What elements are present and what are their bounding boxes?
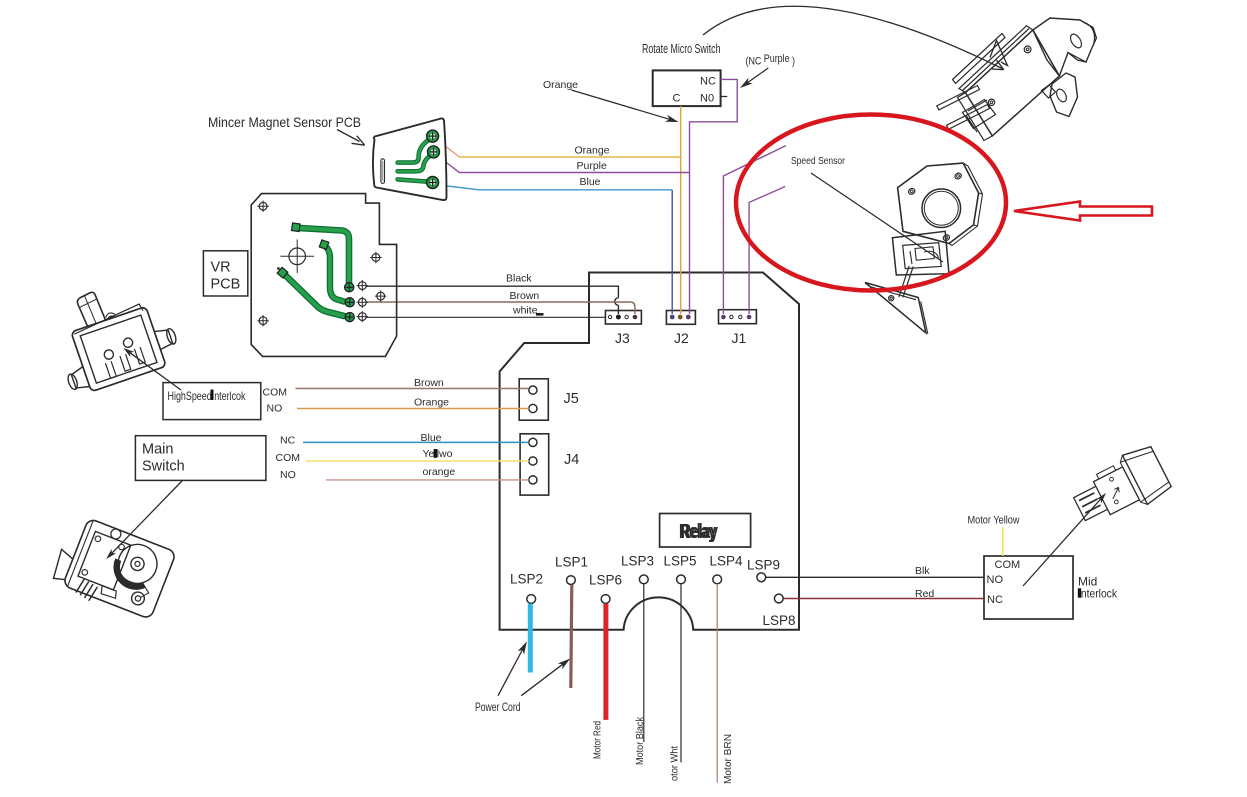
svg-text:COM: COM — [276, 452, 301, 464]
wire purple (J1 pin4 to speed sensor) — [749, 187, 785, 315]
wire motor white from LSP5 — [680, 584, 682, 763]
wire hop (black over brown) — [615, 298, 619, 305]
svg-text:J1: J1 — [732, 330, 747, 346]
svg-text:Orange: Orange — [543, 79, 578, 91]
svg-text:LSP4: LSP4 — [710, 554, 744, 569]
svg-text:NC: NC — [987, 594, 1003, 606]
mincer PCB pad 2 — [428, 146, 440, 158]
svg-text:Switch: Switch — [142, 459, 185, 475]
VR PCB pad 1 — [345, 283, 354, 292]
label Mid Interlock — [1078, 575, 1118, 601]
main switch box — [135, 436, 266, 481]
VR PCB screw terminal 3 — [357, 311, 368, 322]
line speed sensor label to component — [811, 173, 943, 262]
LSP6 terminal — [601, 595, 610, 604]
rotate micro switch box — [653, 70, 721, 106]
thick blue wire LSP2 (power cord) — [528, 604, 533, 673]
LSP3 terminal — [639, 575, 648, 584]
svg-text:Main: Main — [142, 442, 173, 458]
wire LSP9 to mid interlock NO — [766, 576, 984, 578]
wire purple (micro switch NC loop to J2) — [690, 79, 738, 314]
mincer PCB pad 1 — [427, 130, 439, 142]
relay box — [660, 514, 751, 548]
svg-text:LSP9: LSP9 — [747, 558, 780, 573]
wire pale orange (main switch NO to J4) — [326, 479, 529, 481]
svg-text:Interlock: Interlock — [1078, 587, 1118, 601]
glyph artifact block in HighSpeedInterlcok — [211, 390, 214, 401]
white label dash — [536, 313, 544, 316]
wire brown (high speed interlock COM to J5) — [296, 388, 529, 390]
svg-text:Relay: Relay — [681, 521, 719, 543]
svg-text:J4: J4 — [564, 452, 579, 468]
arrow NC purple label to wire — [740, 68, 768, 88]
thick red wire LSP6 (motor red) — [603, 604, 608, 720]
svg-text:Black: Black — [506, 273, 532, 285]
arrow power cord to maroon wire — [521, 659, 570, 696]
svg-text:LSP8: LSP8 — [763, 613, 796, 628]
VR PCB label box — [203, 251, 247, 296]
svg-text:J2: J2 — [674, 330, 689, 346]
main control board outline — [500, 273, 799, 630]
wire purple (J1 pin1 to speed sensor) — [723, 146, 785, 314]
svg-text:orange: orange — [423, 466, 456, 478]
svg-text:LSP5: LSP5 — [664, 554, 697, 569]
svg-text:J3: J3 — [615, 330, 630, 346]
svg-text:Purple: Purple — [577, 160, 608, 172]
high speed interlock switch drawing — [43, 271, 183, 398]
wire motor yellow — [1002, 527, 1004, 556]
LSP2 terminal — [527, 595, 536, 604]
connector J4 — [520, 434, 549, 495]
label Relay — [679, 521, 719, 543]
VR PCB outline — [251, 194, 396, 357]
red ellipse (speed sensor highlight) — [736, 115, 1006, 291]
wire orange horizontal (sensor to J2) — [459, 156, 680, 158]
svg-text:otor Wht: otor Wht — [669, 746, 681, 781]
svg-text:COM: COM — [995, 559, 1021, 571]
svg-text:PCB: PCB — [211, 277, 241, 293]
stub N0 (micro switch) — [721, 96, 728, 98]
glyph artifact block in Yellwo — [434, 449, 438, 458]
mid interlock box — [984, 556, 1073, 619]
wire navy vertical (to J2 pin1) — [671, 190, 673, 314]
mincer PCB slot — [381, 159, 385, 184]
LSP5 terminal — [677, 575, 686, 584]
wire white (VR PCB to J3) — [366, 316, 606, 318]
svg-text:Motor Red: Motor Red — [592, 721, 604, 759]
arrow mincer label to PCB — [337, 130, 365, 146]
svg-text:Blk: Blk — [915, 565, 930, 577]
speed sensor drawing — [865, 163, 983, 334]
thick maroon wire LSP1 (power cord) — [571, 585, 572, 688]
arrow orange label to wire — [571, 90, 678, 122]
svg-text:Speed Sensor: Speed Sensor — [791, 155, 845, 167]
svg-text:white: white — [512, 305, 538, 317]
svg-text:LSP2: LSP2 — [510, 572, 543, 587]
svg-text:Blue: Blue — [421, 432, 442, 444]
svg-text:J5: J5 — [564, 391, 579, 407]
main switch drawing — [48, 513, 177, 624]
line main switch box to component — [106, 481, 182, 560]
svg-text:VR: VR — [211, 260, 231, 276]
wire purple horizontal (sensor to J2) — [436, 155, 690, 173]
wire LSP8 to mid interlock NC — [783, 598, 984, 600]
svg-text:LSP1: LSP1 — [555, 555, 588, 570]
VR PCB trace 1 — [292, 223, 349, 284]
wire yellow (main switch COM to J4) — [306, 460, 529, 462]
mincer PCB trace A — [398, 139, 430, 163]
mincer PCB trace B — [398, 155, 432, 172]
VR PCB trace 3 — [277, 267, 344, 316]
LSP8 terminal — [774, 594, 783, 603]
mincer PCB trace C — [398, 179, 430, 181]
svg-text:Yellwo: Yellwo — [423, 448, 453, 460]
HighSpeedInterlock box — [163, 383, 261, 420]
wire blue (main switch NC to J4) — [303, 441, 529, 443]
svg-text:Brown: Brown — [414, 377, 444, 389]
svg-text:Mincer Magnet Sensor PCB: Mincer Magnet Sensor PCB — [208, 114, 361, 130]
svg-text:C: C — [673, 93, 681, 105]
VR PCB pad 3 — [345, 313, 354, 322]
big arc (component to rotate micro switch) — [703, 6, 1004, 69]
svg-text:Motor Black: Motor Black — [634, 716, 646, 765]
mid interlock switch drawing — [1067, 442, 1174, 533]
VR PCB screw terminal 2 — [357, 297, 368, 308]
LSP1 terminal — [567, 576, 576, 585]
svg-text:LSP3: LSP3 — [621, 554, 654, 569]
svg-text:NO: NO — [267, 403, 283, 415]
svg-text:Red: Red — [915, 588, 934, 600]
connector J2 — [666, 311, 695, 325]
svg-text:Orange: Orange — [414, 397, 449, 409]
svg-text:N0: N0 — [700, 93, 714, 105]
wire orange vertical (micro switch C to J2) — [680, 106, 682, 314]
red arrow pointing at speed sensor — [1014, 202, 1152, 221]
mincer magnet sensor PCB outline — [373, 118, 447, 200]
svg-text:NC: NC — [280, 435, 296, 447]
svg-text:Brown: Brown — [510, 290, 540, 302]
svg-text:Motor BRN: Motor BRN — [722, 734, 734, 784]
svg-text:COM: COM — [263, 387, 288, 399]
mincer PCB pad 3 — [427, 177, 439, 189]
VR PCB pad 2 — [345, 298, 354, 307]
svg-text:NO: NO — [280, 469, 296, 481]
svg-text:Blue: Blue — [580, 176, 601, 188]
VR PCB screw hole top-left — [257, 201, 268, 212]
svg-text:NC: NC — [700, 76, 716, 88]
VR PCB trace 2 — [319, 240, 344, 302]
arrow power cord to blue wire — [498, 641, 527, 695]
svg-text:Power Cord: Power Cord — [475, 702, 521, 714]
connector J5 — [519, 379, 548, 420]
LSP9 terminal — [757, 573, 766, 582]
wire motor black from LSP3 — [643, 584, 645, 742]
line high speed interlock box to component — [123, 348, 181, 390]
wire salmon diagonal (sensor pad to orange) — [437, 140, 460, 158]
wire brown (VR PCB to J3) — [366, 302, 635, 314]
glyph artifact block in Interlock — [1078, 588, 1081, 597]
svg-text:LSP6: LSP6 — [589, 573, 622, 588]
VR PCB screw terminal 1 — [357, 280, 368, 291]
svg-text:Rotate Micro Switch: Rotate Micro Switch — [642, 42, 721, 56]
line mid interlock box to component — [1023, 493, 1106, 586]
svg-text:HighSpeedInterlcok: HighSpeedInterlcok — [168, 389, 247, 403]
svg-text:Motor Yellow: Motor Yellow — [968, 515, 1020, 527]
svg-text:NO: NO — [987, 574, 1004, 586]
rotate micro switch drawing (top right) — [937, 18, 1097, 141]
wire black (VR PCB to J3) — [366, 286, 618, 314]
VR PCB screw hole bottom-left — [257, 315, 268, 326]
connector J3 — [605, 311, 641, 325]
VR PCB crosshair — [280, 240, 314, 274]
svg-text:Orange: Orange — [575, 145, 610, 157]
wire motor brown from LSP4 — [716, 584, 718, 783]
wire blue (sensor to J2) — [435, 185, 672, 190]
LSP4 terminal — [713, 575, 722, 584]
connector J1 — [719, 310, 757, 324]
wire orange (high speed interlock NO to J5) — [297, 408, 529, 410]
VR PCB screw hole right mid — [375, 290, 386, 301]
VR PCB screw hole right upper — [370, 252, 381, 263]
